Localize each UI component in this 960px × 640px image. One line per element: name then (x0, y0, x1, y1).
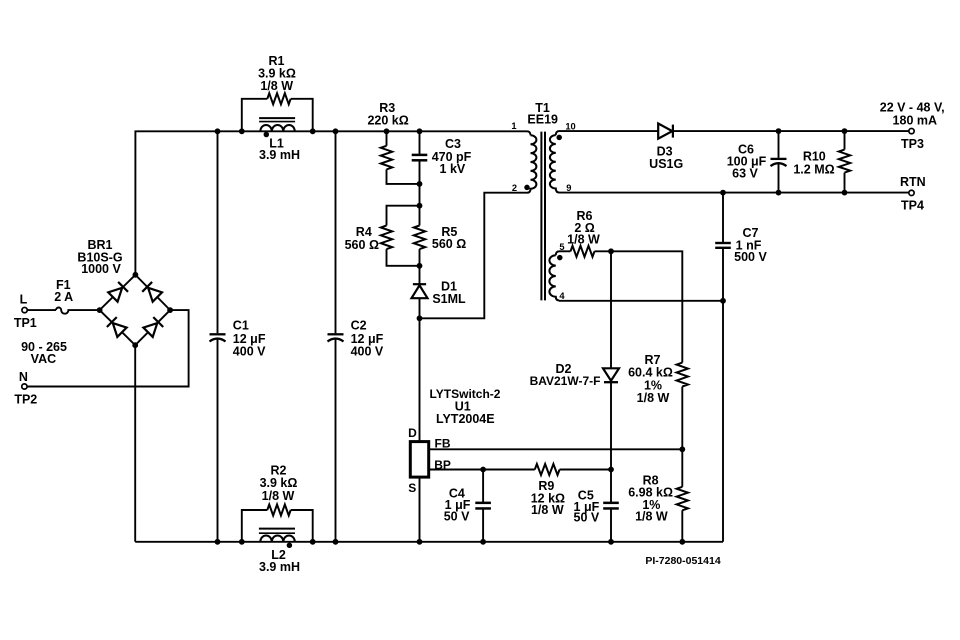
svg-text:C3: C3 (445, 137, 461, 151)
svg-text:3.9 mH: 3.9 mH (259, 560, 300, 574)
svg-text:1/8 W: 1/8 W (531, 503, 564, 517)
svg-text:EE19: EE19 (527, 113, 558, 127)
svg-text:FB: FB (435, 437, 451, 451)
svg-text:BAV21W-7-F: BAV21W-7-F (530, 374, 601, 388)
svg-text:1: 1 (511, 121, 516, 131)
svg-text:2: 2 (512, 183, 517, 193)
svg-text:RTN: RTN (900, 175, 926, 189)
svg-text:500 V: 500 V (734, 250, 767, 264)
svg-text:1/8 W: 1/8 W (262, 489, 295, 503)
svg-text:1.2 MΩ: 1.2 MΩ (793, 162, 834, 176)
svg-text:C2: C2 (351, 319, 367, 333)
svg-text:TP4: TP4 (901, 199, 924, 213)
svg-text:1 kV: 1 kV (440, 162, 466, 176)
svg-text:50 V: 50 V (574, 511, 600, 525)
svg-text:US1G: US1G (649, 157, 683, 171)
svg-text:50 V: 50 V (444, 510, 470, 524)
svg-text:C1: C1 (233, 319, 249, 333)
svg-text:TP3: TP3 (901, 137, 924, 151)
svg-text:PI-7280-051414: PI-7280-051414 (645, 555, 720, 567)
svg-text:LYT2004E: LYT2004E (436, 412, 495, 426)
svg-text:3.9 mH: 3.9 mH (259, 148, 300, 162)
svg-text:9: 9 (566, 183, 571, 193)
svg-text:4: 4 (559, 291, 565, 301)
svg-text:180 mA: 180 mA (893, 114, 937, 128)
svg-text:400 V: 400 V (351, 344, 384, 358)
svg-text:D: D (408, 426, 417, 440)
svg-text:10: 10 (565, 122, 575, 132)
svg-text:BP: BP (434, 458, 451, 472)
svg-text:1/8 W: 1/8 W (637, 391, 670, 405)
svg-text:1000 V: 1000 V (81, 262, 121, 276)
svg-text:1/8 W: 1/8 W (635, 510, 668, 524)
svg-text:2 A: 2 A (54, 290, 73, 304)
svg-text:220 kΩ: 220 kΩ (367, 113, 408, 127)
svg-text:560 Ω: 560 Ω (345, 238, 379, 252)
svg-text:560 Ω: 560 Ω (432, 237, 466, 251)
svg-text:63 V: 63 V (732, 167, 758, 181)
svg-text:1/8 W: 1/8 W (567, 232, 600, 246)
svg-text:22 V - 48 V,: 22 V - 48 V, (880, 101, 945, 115)
svg-text:L: L (20, 292, 28, 306)
svg-text:S: S (408, 481, 416, 495)
svg-text:S1ML: S1ML (432, 292, 466, 306)
svg-text:N: N (19, 370, 28, 384)
svg-text:1/8 W: 1/8 W (260, 79, 293, 93)
svg-text:400 V: 400 V (233, 344, 266, 358)
svg-text:TP1: TP1 (14, 316, 37, 330)
svg-text:TP2: TP2 (14, 393, 37, 407)
svg-text:VAC: VAC (31, 352, 56, 366)
svg-text:R4: R4 (356, 225, 372, 239)
svg-text:5: 5 (559, 242, 564, 252)
